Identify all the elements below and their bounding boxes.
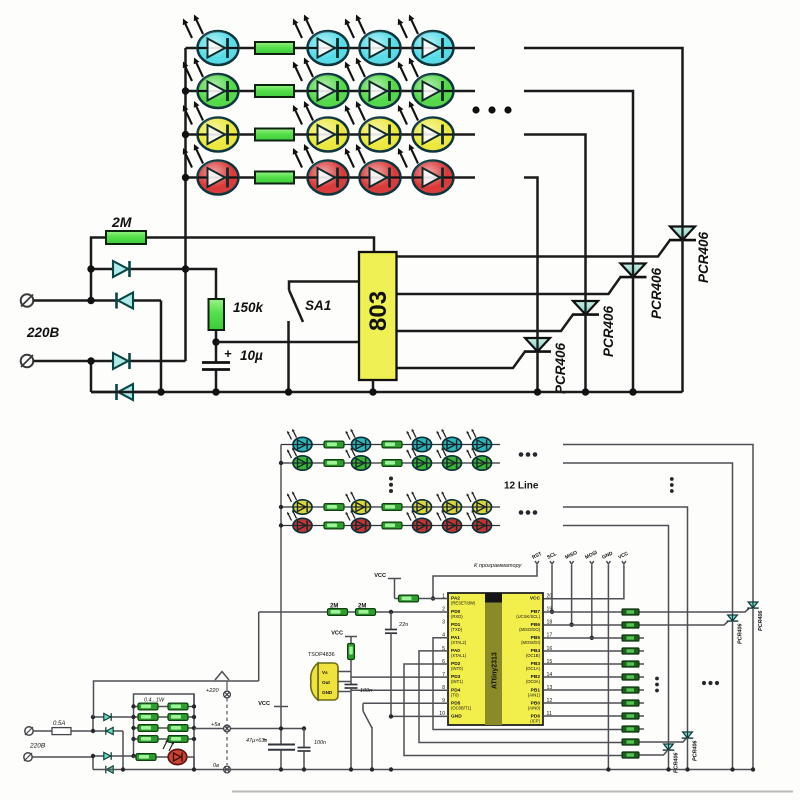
bank rail nodes	[131, 704, 135, 708]
svg-text:12 Line: 12 Line	[504, 481, 539, 492]
wire pin18 to gate T2	[544, 622, 729, 626]
svg-text:2М: 2М	[330, 604, 338, 610]
svg-text:10µ: 10µ	[240, 348, 263, 363]
wire VS3 cathode down	[584, 315, 587, 393]
node GND pin10	[389, 714, 393, 718]
vertical ellipsis right column	[670, 477, 674, 493]
bus nodes	[121, 767, 125, 771]
svg-text:(ICP): (ICP)	[530, 718, 540, 723]
wire pin9 to button	[363, 702, 448, 704]
svg-text:GND: GND	[451, 713, 462, 719]
resistor R3	[255, 129, 294, 141]
wire pin17 ladder row 3	[544, 637, 645, 639]
resistor 150k	[209, 299, 225, 330]
chip U2 pin names and numbers	[451, 596, 541, 724]
wire pin12 ladder row 8	[544, 702, 645, 704]
bridge diode VD8	[106, 766, 113, 774]
LED HL3 blue	[345, 15, 401, 66]
resistor ladder R6	[622, 674, 639, 680]
thyristor VS1 PCR406	[669, 227, 696, 241]
resistor reset pullup	[399, 595, 419, 602]
LED HL4 blue	[398, 15, 454, 66]
node reset	[431, 596, 435, 600]
vertical ellipsis matrix middle	[389, 477, 393, 494]
svg-text:22n: 22n	[399, 622, 408, 628]
svg-text:PCR406: PCR406	[693, 740, 699, 761]
LED HL12 yellow	[398, 101, 454, 152]
AC peak symbol	[215, 672, 229, 681]
node bus C1	[212, 388, 219, 395]
svg-text:+: +	[263, 738, 267, 744]
wire VS3 gate	[397, 315, 574, 332]
capacitor C4 100n	[303, 729, 305, 748]
svg-text:VCC: VCC	[331, 631, 343, 637]
svg-text:(AIN1): (AIN1)	[528, 692, 541, 697]
wire bottom LED bus vertical	[280, 445, 282, 707]
ellipsis row CD right	[519, 510, 538, 515]
svg-text:PCR406: PCR406	[738, 623, 744, 644]
svg-text:(T0): (T0)	[451, 692, 459, 697]
thyristor VS3 PCR406	[572, 301, 599, 315]
LED HL6 green	[293, 58, 349, 109]
wire bridge positive vertical	[184, 269, 187, 361]
wire row2 to thyristor VS2	[524, 91, 633, 264]
node X1	[87, 297, 94, 304]
svg-text:+220: +220	[206, 688, 219, 694]
resistor ladder R2	[622, 622, 639, 628]
svg-text:PCR406: PCR406	[649, 267, 664, 319]
wire bottom row D	[281, 525, 500, 527]
svg-text:GND: GND	[322, 690, 333, 695]
resistor ladder R8	[622, 700, 639, 706]
node bus rowC	[279, 505, 283, 509]
resistor ladder R5	[622, 661, 639, 667]
LED HL16 red	[398, 144, 454, 195]
wire bridge left vertical bottom	[90, 361, 93, 392]
svg-text:+: +	[224, 346, 232, 361]
wire RST to reset pin	[433, 565, 537, 599]
svg-text:(TXD): (TXD)	[451, 627, 463, 632]
wire RC node to chip	[216, 341, 359, 344]
svg-text:100n: 100n	[314, 740, 326, 746]
terminal X2	[21, 355, 34, 368]
svg-text:(UCSK/SCL): (UCSK/SCL)	[516, 614, 540, 619]
wire rowC to thyristor T3	[563, 507, 688, 732]
wire pin16 ladder row 4	[544, 650, 645, 652]
wire GND column	[607, 565, 609, 770]
wire MOSI column	[591, 565, 593, 638]
svg-text:(OC1B): (OC1B)	[526, 653, 541, 658]
vertical ellipsis ladder	[655, 677, 659, 693]
LED HL1 blue	[183, 15, 239, 66]
node bus chip	[369, 388, 376, 395]
node LED bus row3	[182, 131, 189, 138]
wire reset pullup to pin1	[395, 598, 449, 600]
switch SA1	[289, 282, 359, 291]
node pin2 cap	[389, 610, 393, 614]
svg-text:(MISO/DO): (MISO/DO)	[519, 627, 541, 632]
svg-text:3: 3	[442, 620, 445, 626]
indicator row resistor	[134, 756, 169, 758]
node positive	[182, 265, 189, 272]
LED HL13 red	[183, 144, 239, 195]
wire VS4 gate	[397, 352, 526, 369]
wire pin7 to TSOP out	[351, 676, 448, 678]
indicator LED red	[163, 741, 167, 749]
wire bridge2 left verticals	[92, 717, 94, 731]
wire sense riser	[258, 612, 260, 681]
svg-text:К программатору: К программатору	[474, 563, 523, 569]
LED HL10 yellow	[293, 101, 349, 152]
wire mains sense to pin2	[259, 611, 448, 613]
wire VS4 cathode down	[536, 352, 539, 393]
wire rowA to thyristor T1	[563, 445, 753, 603]
wire pin8 to TSOP	[351, 689, 448, 691]
terminal X3	[25, 727, 33, 735]
svg-text:(OC0A): (OC0A)	[526, 679, 541, 684]
svg-text:SA1: SA1	[305, 298, 331, 313]
svg-text:Vs: Vs	[322, 670, 328, 675]
svg-text:ATtiny2313: ATtiny2313	[492, 652, 499, 689]
VCC symbol above reset pullup	[388, 578, 401, 580]
svg-text:PCR406: PCR406	[553, 342, 568, 394]
wire row12 to gate T4	[622, 751, 667, 755]
faint bottom rule	[232, 791, 793, 793]
wire rowB to thyristor T2	[563, 463, 733, 615]
node bus VS2	[629, 388, 636, 395]
svg-text:(OC0B/T1): (OC0B/T1)	[451, 705, 472, 710]
svg-text:(AIN0): (AIN0)	[528, 705, 541, 710]
thyristor VS2 PCR406	[620, 264, 647, 278]
wire bottom row B	[281, 462, 500, 464]
wire pin4 wrap to resistor row10	[433, 638, 622, 730]
node LED bus row2	[182, 87, 189, 94]
wire row3 to thyristor VS3	[524, 135, 586, 302]
row A LEDs blue	[287, 429, 312, 452]
LED HL7 green	[345, 58, 401, 109]
svg-text:150k: 150k	[233, 300, 265, 315]
svg-text:(XTAL1): (XTAL1)	[451, 653, 467, 658]
wire bus to cap	[280, 707, 282, 745]
wire LED row 2	[186, 90, 476, 93]
svg-text:(INT1): (INT1)	[451, 679, 463, 684]
ellipsis thyristor column	[702, 681, 719, 685]
resistor 2M a	[328, 609, 348, 616]
thyristor T3 PCR406	[682, 732, 694, 738]
wire LED bus left vertical	[184, 48, 187, 269]
wire LED row 3	[186, 133, 476, 136]
wire positive to 150k	[186, 269, 217, 299]
wire MISO column	[571, 565, 573, 625]
wire chip bottom pin	[372, 380, 375, 392]
resistor ladder R7	[622, 687, 639, 693]
svg-text:100n: 100n	[360, 688, 372, 694]
resistor ladder R4	[622, 648, 639, 654]
resistor ladder R12	[622, 752, 639, 758]
svg-text:Out: Out	[322, 680, 330, 685]
TSOP pin stubs	[338, 671, 351, 673]
resistor ladder R11	[622, 739, 639, 745]
fuse 0.5A	[52, 728, 71, 735]
svg-text:PCR406: PCR406	[601, 305, 616, 357]
thyristor T4 PCR406	[663, 744, 675, 750]
node VD1 left	[87, 265, 94, 272]
wire VCC column to pin20	[544, 565, 624, 599]
bridge diode VD3	[91, 360, 186, 363]
bank row 2	[134, 716, 195, 718]
svg-text:0в: 0в	[213, 763, 219, 769]
wire SCL column	[551, 565, 553, 612]
capacitor C5 100n TSOP	[345, 684, 358, 686]
svg-text:20: 20	[547, 594, 553, 600]
wire pin10 GND	[391, 715, 448, 717]
chip U1 803	[359, 252, 397, 380]
LED HL8 green	[398, 58, 454, 109]
bridge diode VD1	[91, 268, 186, 271]
svg-text:0.5А: 0.5А	[53, 721, 65, 727]
LED HL14 red	[293, 144, 349, 195]
wire bottom row C	[281, 506, 500, 508]
resistor 2M b	[356, 609, 376, 616]
chip U2 ATtiny2313	[448, 593, 543, 725]
row B LEDs green	[287, 447, 312, 470]
wire pin15 ladder row 5	[544, 663, 645, 665]
LED HL5 green	[183, 58, 239, 109]
wire row1 to thyristor VS1	[524, 48, 683, 227]
svg-text:2М: 2М	[358, 604, 366, 610]
wire LED row 1	[186, 47, 476, 50]
svg-text:220В: 220В	[29, 743, 46, 750]
ellipsis continuation dots	[472, 106, 511, 113]
bridge diode VD6	[93, 730, 123, 732]
node bus rowB	[279, 461, 283, 465]
resistor R2	[255, 85, 294, 97]
wire bottom row A	[281, 444, 500, 446]
wire pin13 ladder row 7	[544, 689, 645, 691]
button SB1	[362, 703, 364, 711]
capacitor C1 10u	[202, 361, 230, 364]
resistor R1	[255, 42, 294, 54]
VCC tap on LED bus	[274, 706, 288, 708]
dashed measure column	[226, 698, 228, 765]
node bus VD2	[157, 388, 164, 395]
wire VS1 cathode down	[681, 240, 684, 392]
capacitor C3 47u	[268, 744, 295, 746]
wire pin6 wrap to resistor row12	[404, 664, 622, 756]
wire bridge2 negative vertical	[122, 731, 124, 770]
wire row4 to thyristor VS4	[524, 178, 538, 339]
bridge diode VD2	[91, 299, 161, 302]
wire pin11 ladder row 9	[544, 715, 645, 717]
ellipsis row AB right	[519, 452, 538, 457]
LED HL9 yellow	[183, 101, 239, 152]
node bus rowD	[279, 523, 283, 527]
resistor ladder R3	[622, 635, 639, 641]
svg-text:(OC1A): (OC1A)	[526, 666, 541, 671]
LED HL11 yellow	[345, 101, 401, 152]
bridge diode VD7	[93, 755, 134, 757]
bank row 4	[134, 738, 195, 740]
wire bridge left vertical top	[90, 269, 93, 301]
node X2	[87, 357, 94, 364]
thyristor VS4 PCR406	[524, 338, 551, 352]
svg-text:(RESET/dW): (RESET/dW)	[451, 601, 476, 606]
dropper resistor bank frame	[134, 694, 195, 707]
svg-text:PCR406: PCR406	[696, 231, 711, 283]
resistor ladder R10	[622, 726, 639, 732]
LED HL2 blue	[293, 15, 349, 66]
svg-text:2M: 2M	[111, 214, 132, 230]
bridge diode VD5	[93, 716, 134, 718]
row D LEDs red	[287, 510, 312, 533]
wire VS2 gate	[397, 277, 621, 294]
svg-text:VCC: VCC	[530, 596, 541, 602]
resistor ladder R9	[622, 713, 639, 719]
terminal X4	[24, 753, 32, 761]
resistor TSOP pullup vertical	[350, 637, 352, 685]
svg-text:803: 803	[365, 291, 392, 331]
LED HL15 red	[345, 144, 401, 195]
plus5 rail	[194, 728, 304, 730]
node bus SA1	[285, 388, 292, 395]
wire pin14 ladder row 6	[544, 676, 645, 678]
svg-text:220В: 220В	[26, 325, 60, 340]
wire pin19 to gate T1	[544, 609, 750, 613]
resistor 2M	[106, 231, 146, 244]
capacitor 22n on pin2 node	[390, 612, 392, 629]
wire 150k to cap node	[215, 330, 218, 362]
wire VS1 gate	[397, 240, 671, 257]
wire LED to rail	[187, 757, 194, 770]
test point +5	[224, 725, 231, 732]
svg-text:+5в: +5в	[211, 722, 220, 728]
wire pin5 wrap to resistor row11	[419, 651, 622, 743]
wire raw plus riser	[94, 681, 259, 717]
svg-text:VCC: VCC	[258, 701, 270, 707]
bridge diode VD4	[91, 391, 161, 394]
resistor R4	[255, 172, 294, 184]
svg-text:PCR406: PCR406	[758, 610, 764, 631]
node bus VS4	[534, 388, 541, 395]
wire rowD to thyristor T4	[563, 526, 669, 745]
row C LEDs yellow	[287, 491, 312, 514]
test point +220	[224, 691, 231, 698]
wire VS2 cathode down	[632, 277, 635, 392]
wire ground bus	[91, 391, 683, 394]
bank row 1	[134, 706, 195, 708]
wire bridge negative vertical	[160, 301, 163, 393]
svg-text:VCC: VCC	[374, 573, 386, 579]
wire ladder row 10 stub	[622, 728, 644, 730]
test point 0v	[224, 766, 231, 773]
svg-text:(RXD): (RXD)	[451, 614, 463, 619]
node LED bus row4	[182, 174, 189, 181]
node rail caps	[279, 726, 283, 730]
wire 2M branch	[91, 238, 374, 270]
svg-text:(INT0): (INT0)	[451, 666, 463, 671]
thyristor T2 PCR406	[727, 615, 739, 621]
bank row 3	[134, 727, 195, 729]
thyristor T1 PCR406	[747, 602, 759, 608]
node bridge2	[91, 715, 95, 719]
svg-text:(MOSI/DI): (MOSI/DI)	[521, 640, 540, 645]
VCC symbol TSOP	[345, 636, 357, 638]
svg-text:(XTAL2): (XTAL2)	[451, 640, 467, 645]
ground bus bottom	[93, 769, 755, 771]
wire LED row 4	[186, 176, 476, 179]
terminal X1	[21, 294, 34, 307]
wire row11 to gate T3	[622, 738, 687, 742]
node RC	[212, 338, 219, 345]
svg-text:TSOP4836: TSOP4836	[308, 652, 335, 658]
node bus VS3	[582, 388, 589, 395]
resistor ladder R1	[622, 609, 639, 615]
